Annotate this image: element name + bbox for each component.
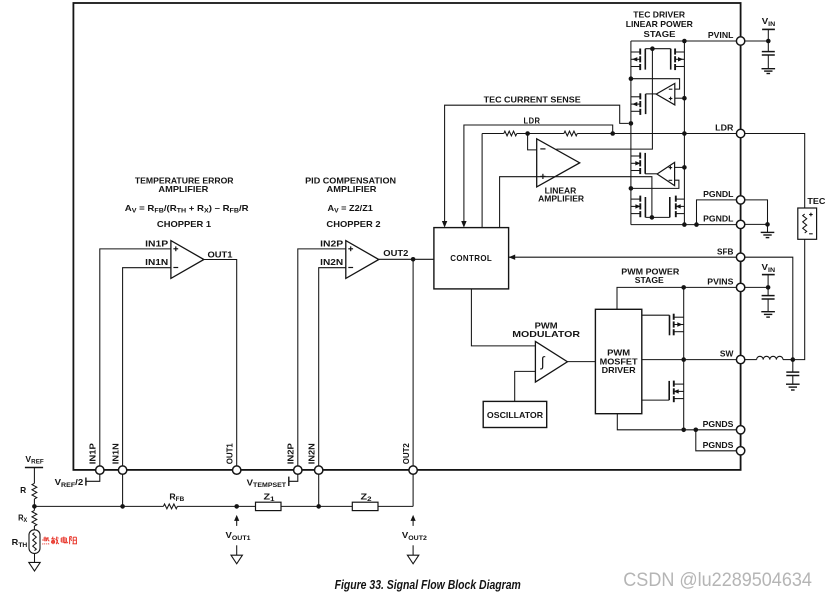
wire TEC current sense	[445, 105, 629, 221]
capacitor VIN top	[762, 51, 775, 53]
node VIN pwm	[766, 285, 771, 290]
pin IN2N	[315, 466, 323, 474]
supply bar VIN top	[762, 28, 775, 30]
node SW-rail	[681, 357, 686, 362]
transistor FET4 (bottom-left)	[639, 196, 641, 202]
svg-text:AMPLIFIER: AMPLIFIER	[538, 193, 584, 203]
wire PGNDL external	[745, 200, 768, 233]
label thermistor (red)	[43, 537, 47, 539]
wire PWM rail	[683, 287, 685, 429]
op-amp PWM modulator	[535, 341, 567, 382]
supply bar VIN pwm	[762, 274, 775, 276]
svg-text:OUT1: OUT1	[224, 443, 234, 464]
node PVINS-rail	[681, 285, 686, 290]
wire PVINS to VIN	[745, 286, 768, 288]
wire VTEMPSET tap	[289, 474, 298, 481]
resistor R	[32, 483, 37, 499]
pin PVINL	[736, 37, 744, 45]
svg-text:PGNDL: PGNDL	[703, 189, 733, 199]
arrow into CONTROL (ldr)	[461, 221, 466, 228]
svg-text:IN1N: IN1N	[110, 443, 120, 464]
svg-text:OUT2: OUT2	[401, 443, 411, 464]
node right rail b	[682, 165, 687, 170]
ground VOUT1	[236, 545, 238, 555]
pin IN2P	[294, 466, 302, 474]
chopper1 + symbol	[173, 248, 178, 250]
transistor FET5 (bottom-right)	[675, 196, 677, 202]
wire driver B output to FET3 gate	[645, 173, 657, 175]
CONTROL box	[434, 228, 509, 289]
wire TEC bottom to SW node	[793, 239, 805, 359]
TEC internal resistor	[803, 214, 807, 233]
node IN1N-net	[120, 504, 125, 509]
chopper2 + symbol	[348, 248, 353, 250]
wire inductor to node	[783, 359, 793, 361]
chopper2 - symbol	[348, 267, 353, 269]
svg-text:SFB: SFB	[717, 246, 733, 256]
pin PGNDL	[736, 220, 744, 228]
IC boundary box	[73, 3, 740, 470]
wire cap to gnd pwm	[767, 299, 769, 312]
resistor feedback R1	[504, 131, 517, 136]
node bottom rail-pgndl	[694, 222, 699, 227]
arrow into CONTROL (sfb)	[509, 255, 516, 260]
svg-text:IN1P: IN1P	[88, 443, 98, 464]
pin PGNDS	[736, 447, 744, 455]
wire driver to PGNDS	[617, 414, 736, 430]
wire RX to RTH	[33, 526, 35, 530]
PWM MOSFET DRIVER box	[595, 309, 641, 413]
arrow VOUT2	[411, 515, 416, 521]
wire linear amp upper-gate line	[556, 49, 652, 149]
resistor RX	[32, 510, 37, 526]
svg-text:PGNDS: PGNDS	[703, 419, 734, 429]
wire SW to inductor	[745, 359, 757, 361]
svg-text:IN2P: IN2P	[286, 443, 296, 464]
impedance Z2 box	[352, 502, 378, 510]
node feedback tap	[525, 131, 530, 136]
node PGNDS-link	[694, 428, 699, 433]
svg-text:IN1P: IN1P	[145, 238, 169, 248]
svg-text:Figure 33. Signal Flow Block D: Figure 33. Signal Flow Block Diagram	[335, 578, 521, 592]
ground SW filter	[786, 383, 800, 385]
op-amp gate driver A	[656, 83, 675, 105]
wire upper gate link	[645, 48, 670, 50]
op-amp gate driver B	[657, 162, 675, 185]
wire VREF2 tap	[86, 474, 100, 481]
wire linear right rail	[683, 41, 685, 225]
svg-text:AMPLIFIER: AMPLIFIER	[327, 184, 377, 194]
transistor PWM-T	[673, 314, 675, 320]
svg-text:LINEAR POWER: LINEAR POWER	[626, 19, 693, 29]
wire LDR to CONTROL	[464, 125, 613, 222]
pin IN1N	[118, 466, 126, 474]
node right rail a	[682, 96, 687, 101]
wire bottom net c	[281, 505, 352, 507]
svg-text:R: R	[20, 485, 26, 495]
wire driver B +input	[675, 166, 685, 168]
wire oscillator to modulator	[515, 371, 536, 401]
driver B - symbol	[669, 179, 673, 181]
svg-text:DRIVER: DRIVER	[602, 365, 636, 375]
op-amp linear amplifier	[537, 139, 580, 187]
op-amp chopper2	[346, 241, 379, 279]
ground RTH	[29, 562, 40, 571]
svg-text:CHOPPER 2: CHOPPER 2	[326, 219, 380, 229]
node left rail c	[629, 186, 634, 191]
arrow into CONTROL (sense)	[442, 221, 447, 228]
node top rail	[682, 39, 687, 44]
transistor FET3 (lower-mid-left)	[639, 153, 641, 159]
svg-text:PGNDS: PGNDS	[703, 440, 734, 450]
wire OUT2 to pin and CONTROL	[379, 258, 434, 260]
transistor PMOS2 (upper-right)	[674, 49, 676, 55]
svg-text:TEC: TEC	[807, 196, 825, 206]
wire linear amp +line (CONTROL to lower gates)	[500, 177, 652, 228]
node sense-left rail	[629, 121, 634, 126]
wire feedback segment b	[517, 133, 564, 135]
pin IN1P	[96, 466, 104, 474]
wire bottom gate link	[645, 216, 669, 218]
svg-text:PVINS: PVINS	[707, 277, 734, 287]
wire IN2N to chopper2 -input	[319, 268, 346, 507]
wire linear amp -input	[528, 134, 537, 150]
node bottom gate link	[650, 215, 655, 220]
svg-text:CSDN @lu2289504634: CSDN @lu2289504634	[623, 569, 812, 591]
node feedback-rail	[682, 131, 687, 136]
svg-text:STAGE: STAGE	[635, 275, 664, 285]
capacitor VIN pwm	[762, 295, 775, 297]
TEC - symbol	[809, 233, 813, 235]
wire modulator out	[567, 361, 595, 363]
wire driver A output to NMOS1 gate	[646, 93, 657, 95]
driver A + symbol	[669, 98, 673, 100]
transistor PMOS1 (upper-left)	[639, 49, 641, 55]
svg-text:MODULATOR: MODULATOR	[512, 329, 580, 339]
node bottom rail-right rail	[682, 222, 687, 227]
svg-text:IN1N: IN1N	[145, 257, 168, 267]
wire OUT1	[204, 260, 237, 466]
pin OUT1	[233, 466, 241, 474]
wire R to node	[33, 499, 35, 511]
svg-text:CHOPPER 1: CHOPPER 1	[157, 219, 211, 229]
pin OUT2	[409, 466, 417, 474]
pin LDR	[736, 129, 744, 137]
pin SW	[736, 355, 744, 363]
chopper1 - symbol	[173, 267, 178, 269]
arrow VOUT1	[234, 515, 239, 521]
wire bottom net b	[177, 505, 255, 507]
thermistor RTH element	[33, 533, 37, 551]
node OUT2 junction	[411, 257, 416, 262]
node VIN top	[766, 39, 771, 44]
TEC load box	[798, 208, 817, 239]
svg-text:IN2N: IN2N	[320, 257, 343, 267]
svg-text:STAGE: STAGE	[644, 29, 676, 39]
pin PGNDS	[736, 426, 744, 434]
TEC + symbol	[809, 214, 813, 216]
svg-text:OUT1: OUT1	[208, 250, 233, 260]
wire VREF to R	[33, 468, 35, 484]
wire feedback line into CONTROL	[481, 134, 483, 228]
node left rail a	[629, 76, 634, 81]
supply bar VREF	[25, 467, 43, 469]
resistor RFB	[163, 504, 177, 509]
wire PVINL to VIN	[745, 40, 769, 42]
wire bottom net a	[34, 505, 163, 507]
node PGNDS-rail	[681, 428, 686, 433]
node feedback-LDRwire	[610, 131, 615, 136]
wire top gate	[642, 314, 670, 316]
ground VIN top	[762, 68, 776, 70]
wire driver A +input	[675, 97, 685, 99]
wire PGNDS2 link	[696, 430, 737, 451]
impedance Z1 box	[256, 502, 282, 510]
driver A - symbol	[669, 88, 673, 90]
wire SW internal	[642, 359, 737, 361]
wire CONTROL to PWM modulator	[471, 289, 535, 346]
wire linear top rail	[631, 40, 741, 42]
pin PVINS	[736, 283, 744, 291]
svg-text:OSCILLATOR: OSCILLATOR	[487, 410, 543, 420]
wire driver B feedback	[631, 180, 679, 188]
svg-text:AMPLIFIER: AMPLIFIER	[158, 184, 208, 194]
wire feedback segment c	[577, 133, 740, 135]
pin SFB	[736, 253, 744, 261]
OSCILLATOR box	[483, 401, 547, 427]
wire cap to gnd top	[767, 55, 769, 69]
node OUT1-net	[234, 504, 239, 509]
svg-text:CONTROL: CONTROL	[450, 253, 492, 263]
node IN2N-net	[316, 504, 321, 509]
node upper gate link	[650, 46, 655, 51]
wire linear left rail	[630, 41, 632, 225]
wire SFB external	[745, 257, 793, 359]
linear amp - symbol	[540, 148, 545, 150]
wire IN1P to chopper1 +input	[100, 249, 171, 466]
transistor NMOS1 (mid-left)	[639, 93, 641, 99]
node VREF divider	[32, 504, 37, 509]
wire PVINS internal	[617, 287, 736, 309]
wire SFB to CONTROL	[509, 256, 741, 258]
svg-text:TEC CURRENT SENSE: TEC CURRENT SENSE	[484, 94, 582, 104]
wire PGNDL1 internal	[697, 200, 737, 225]
driver B + symbol	[669, 167, 673, 169]
node SW filter	[791, 357, 796, 362]
resistor feedback R2	[564, 131, 577, 136]
ground PGNDL	[761, 231, 775, 233]
capacitor SW filter	[786, 371, 799, 373]
wire IN2P to chopper2 +input	[298, 249, 346, 466]
svg-text:IN2N: IN2N	[306, 443, 316, 464]
wire bottom net d	[378, 505, 413, 507]
wire driver A feedback	[631, 79, 680, 89]
wire RTH to gnd	[34, 553, 36, 562]
ground VOUT2	[412, 545, 414, 555]
transistor PWM-B	[673, 381, 675, 387]
wire IN1N to chopper1 -input	[123, 268, 171, 507]
linear amp + symbol	[540, 175, 545, 177]
svg-text:OUT2: OUT2	[383, 248, 408, 258]
svg-text:TEC DRIVER: TEC DRIVER	[633, 9, 685, 19]
wire linear bottom rail	[631, 224, 737, 226]
svg-text:LDR: LDR	[524, 116, 541, 126]
op-amp chopper1	[171, 241, 204, 279]
ground VIN pwm	[761, 311, 775, 313]
wire feedback segment a	[482, 133, 504, 135]
pin PGNDL	[736, 196, 744, 204]
svg-text:PGNDL: PGNDL	[703, 214, 733, 224]
wire OUT2 to net	[412, 470, 414, 506]
wire swcap to gnd	[792, 376, 794, 385]
wire bottom gate	[642, 399, 669, 401]
inductor L1	[757, 356, 783, 359]
svg-text:SW: SW	[720, 349, 734, 359]
wire node to cap	[792, 360, 794, 373]
node PGNDL external	[765, 222, 770, 227]
svg-text:LDR: LDR	[715, 123, 733, 133]
svg-text:PVINL: PVINL	[708, 30, 734, 40]
wire LDR to TEC	[745, 134, 805, 209]
svg-text:IN2P: IN2P	[320, 238, 344, 248]
thermistor RTH body	[29, 530, 40, 554]
